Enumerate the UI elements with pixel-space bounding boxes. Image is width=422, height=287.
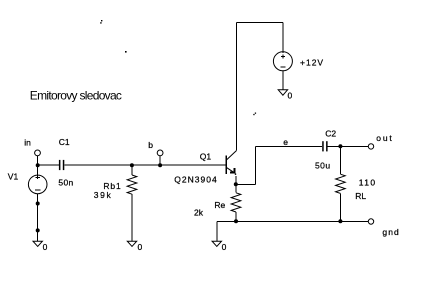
svg-text:out: out (376, 133, 393, 143)
wire: RL bottom to gnd rail (339, 193, 341, 221)
junction dot on V1 ground wire upper (36, 202, 40, 206)
wire: emitter junction right (236, 183, 256, 185)
junction dot at Rb1 top (130, 163, 134, 167)
label 0 at Rb1 ground (138, 242, 143, 252)
svg-text:0: 0 (288, 91, 293, 101)
wire: in node down into V1 plus (37, 156, 39, 179)
value 39k (94, 190, 113, 200)
voltage source V1 circle (28, 175, 47, 194)
svg-text:+12V: +12V (300, 58, 324, 68)
junction dot at node b (158, 163, 162, 167)
wire: junction down to Rb1 (131, 165, 133, 175)
wire: V1 bottom to ground (37, 194, 39, 242)
label Q1 (200, 152, 212, 162)
junction dot at in node (36, 163, 40, 167)
node b: open terminal circle (157, 150, 163, 156)
svg-text:in: in (24, 137, 31, 147)
junction dot at C2 right (338, 144, 342, 148)
wire: b node stub (159, 156, 161, 165)
wire: collector up (235, 23, 237, 151)
label C1 (59, 137, 70, 147)
wire: out junction down to RL (339, 146, 341, 174)
ground symbol below Rb1 (127, 241, 136, 246)
capacitor C1 plates (59, 160, 64, 170)
svg-text:2k: 2k (194, 208, 204, 218)
svg-text:C1: C1 (59, 137, 70, 147)
wire: +12V bottom to ground (282, 71, 284, 90)
label out (376, 133, 393, 143)
svg-text:39k: 39k (94, 190, 113, 200)
wire: emitter junction down to Re (235, 184, 237, 192)
svg-text:V1: V1 (8, 172, 19, 182)
value 50u (315, 161, 331, 171)
wire: up to e level (254, 146, 256, 184)
ground symbol at rail left (212, 241, 221, 246)
resistor Re zigzag (231, 193, 241, 212)
svg-text:gnd: gnd (382, 227, 399, 237)
node in: open terminal circle (35, 150, 41, 156)
wire: C1 right plate to transistor base bar (64, 164, 226, 166)
wire: emitter down to junction (235, 176, 237, 184)
+12V plus sign (281, 55, 285, 59)
transistor Q1 base bar (225, 156, 227, 175)
wire: Rb1 bottom to ground (131, 194, 133, 241)
svg-text:C2: C2 (325, 128, 336, 138)
junction dot on V1 ground wire lower (36, 228, 40, 232)
stray mark 3 (253, 113, 256, 116)
label Re (214, 200, 225, 210)
label V1 (8, 172, 19, 182)
svg-text:0: 0 (43, 242, 48, 252)
label +12V (300, 58, 324, 68)
svg-text:b: b (148, 140, 153, 150)
svg-text:Emitorovy sledovac: Emitorovy sledovac (30, 88, 122, 102)
svg-text:Q1: Q1 (200, 152, 212, 162)
value 110 (359, 178, 377, 188)
junction dot at emitter node (234, 182, 238, 186)
wire: bottom gnd rail (217, 220, 368, 222)
wire: top rail to supply (236, 22, 283, 24)
transistor Q1 emitter diagonal (226, 167, 234, 172)
resistor RL zigzag (336, 174, 346, 193)
V1 minus tick (35, 189, 41, 191)
label Rb1 (103, 181, 121, 191)
label b (148, 140, 153, 150)
wire: e level to C2 (255, 145, 322, 147)
label e (283, 137, 288, 147)
stray mark 2 (125, 51, 127, 53)
label RL (355, 191, 366, 201)
title text "Emitorovy sledovac" (30, 88, 122, 102)
resistor Rb1 zigzag (127, 175, 137, 194)
label Q2N3904 (174, 175, 217, 185)
wire: in junction to C1 left plate (38, 164, 60, 166)
label 0 at rail ground (222, 242, 227, 252)
svg-text:0: 0 (138, 242, 143, 252)
label gnd (382, 227, 399, 237)
voltage source +12V circle (273, 52, 292, 71)
svg-text:50n: 50n (58, 178, 73, 188)
label 0 at +12V ground (288, 91, 293, 101)
+12V minus tick (280, 66, 285, 68)
svg-text:e: e (283, 137, 288, 147)
junction dot at Re bottom (234, 219, 238, 223)
svg-text:110: 110 (359, 178, 377, 188)
node gnd: open terminal circle (368, 219, 373, 224)
svg-text:RL: RL (355, 191, 366, 201)
wire: C2 to out node (328, 145, 369, 147)
stray mark 1 (100, 20, 102, 24)
junction dot at RL bottom (338, 219, 342, 223)
ground symbol below V1 (33, 241, 42, 246)
wire: Re bottom to gnd rail (235, 212, 237, 221)
transistor Q1 collector diagonal (226, 151, 236, 160)
ground symbol below +12V (278, 90, 287, 95)
label C2 (325, 128, 336, 138)
svg-text:Q2N3904: Q2N3904 (174, 175, 217, 185)
value 50n (58, 178, 73, 188)
label 0 at V1 ground (43, 242, 48, 252)
svg-text:50u: 50u (315, 161, 331, 171)
wire: down into +12V source (282, 23, 284, 54)
svg-text:0: 0 (222, 242, 227, 252)
transistor Q1 emitter arrowhead (230, 168, 236, 175)
value 2k (194, 208, 204, 218)
capacitor C2 plates (322, 141, 327, 151)
wire: rail corner down to ground (216, 221, 218, 241)
svg-text:Re: Re (214, 200, 225, 210)
node out: open terminal circle (368, 144, 373, 149)
V1 plus tick (35, 176, 40, 178)
label in (24, 137, 31, 147)
